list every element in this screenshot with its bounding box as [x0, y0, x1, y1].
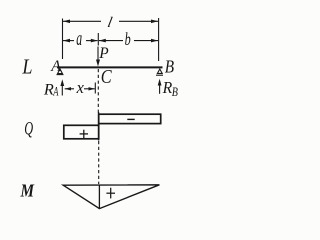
plus sign in Q [80, 130, 88, 138]
dimension line x [65, 87, 95, 90]
svg-text:B: B [165, 56, 174, 77]
minus sign in Q [127, 118, 134, 120]
svg-text:a: a [76, 26, 82, 49]
center tick at C [97, 33, 99, 46]
support B [156, 69, 163, 75]
svg-text:x: x [76, 78, 85, 97]
svg-text:R: R [162, 77, 173, 97]
Q jump line at C [98, 112, 100, 140]
svg-text:M: M [20, 180, 36, 200]
dimension line l [63, 20, 158, 24]
dimension line a [63, 39, 98, 43]
support A [57, 69, 64, 75]
dimension line b [99, 39, 158, 43]
Q diagram negative rect [99, 114, 161, 123]
svg-text:A: A [53, 86, 59, 99]
tick at x dimension end [94, 83, 96, 94]
svg-text:b: b [125, 31, 131, 50]
svg-text:Q: Q [24, 119, 33, 139]
force P arrow [96, 47, 100, 67]
svg-text:R: R [43, 80, 54, 98]
svg-text:l: l [106, 15, 113, 31]
dashed line at C lower [98, 141, 100, 184]
svg-text:P: P [98, 45, 109, 62]
M diagram triangle [63, 185, 159, 209]
svg-text:C: C [101, 66, 112, 88]
left extension tick [62, 19, 64, 60]
right extension tick [158, 18, 160, 61]
svg-text:B: B [172, 86, 178, 99]
plus sign in M [106, 188, 115, 199]
reaction RB arrow [158, 79, 162, 94]
beam L [57, 66, 163, 68]
svg-text:A: A [50, 58, 61, 75]
svg-text:L: L [21, 55, 32, 79]
Q diagram positive rect [64, 125, 99, 139]
dashed line at C upper [97, 69, 99, 113]
reaction RA arrow [60, 79, 64, 95]
M diagram vertical at C [98, 185, 100, 209]
